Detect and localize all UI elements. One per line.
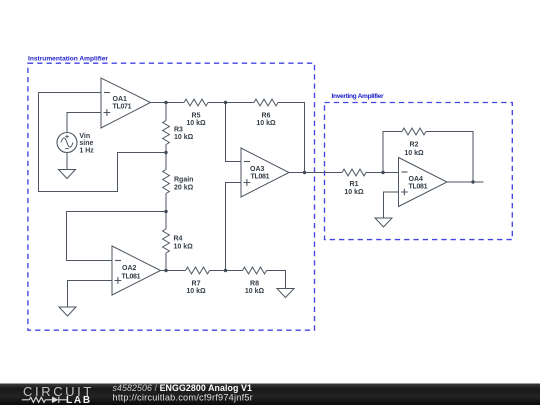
svg-text:Vin: Vin: [79, 133, 90, 140]
svg-text:10 kΩ: 10 kΩ: [186, 120, 206, 127]
svg-text:R1: R1: [350, 181, 359, 188]
svg-text:TL071: TL071: [113, 104, 132, 111]
svg-text:TL081: TL081: [122, 273, 141, 280]
svg-text:10 kΩ: 10 kΩ: [174, 134, 194, 141]
svg-text:1 Hz: 1 Hz: [79, 148, 94, 155]
svg-text:R6: R6: [262, 113, 271, 120]
svg-text:R2: R2: [410, 142, 419, 149]
svg-text:10 kΩ: 10 kΩ: [256, 120, 276, 127]
svg-text:R3: R3: [174, 127, 183, 134]
svg-text:Rgain: Rgain: [174, 176, 193, 183]
svg-text:OA3: OA3: [250, 166, 265, 173]
svg-text:sine: sine: [79, 140, 93, 147]
svg-text:TL081: TL081: [251, 173, 270, 180]
svg-text:10 kΩ: 10 kΩ: [186, 288, 206, 295]
svg-text:R8: R8: [250, 281, 259, 288]
svg-text:R7: R7: [192, 281, 201, 288]
svg-text:Instrumentation Amplifier: Instrumentation Amplifier: [28, 55, 108, 62]
svg-text:10 kΩ: 10 kΩ: [245, 288, 265, 295]
svg-text:10 kΩ: 10 kΩ: [174, 244, 194, 251]
svg-text:LAB: LAB: [66, 395, 92, 405]
svg-text:10 kΩ: 10 kΩ: [344, 189, 364, 196]
svg-text:TL081: TL081: [409, 184, 428, 191]
svg-text:http://circuitlab.com/cf9rf974: http://circuitlab.com/cf9rf974jnf5r: [113, 392, 253, 402]
svg-text:OA2: OA2: [122, 265, 137, 272]
svg-text:10 kΩ: 10 kΩ: [404, 150, 424, 157]
svg-text:OA1: OA1: [113, 96, 128, 103]
svg-text:R4: R4: [174, 236, 183, 243]
svg-text:R5: R5: [192, 113, 201, 120]
svg-text:20 kΩ: 20 kΩ: [174, 184, 194, 191]
svg-text:OA4: OA4: [409, 176, 424, 183]
svg-text:Inverting Amplifier: Inverting Amplifier: [332, 93, 385, 100]
